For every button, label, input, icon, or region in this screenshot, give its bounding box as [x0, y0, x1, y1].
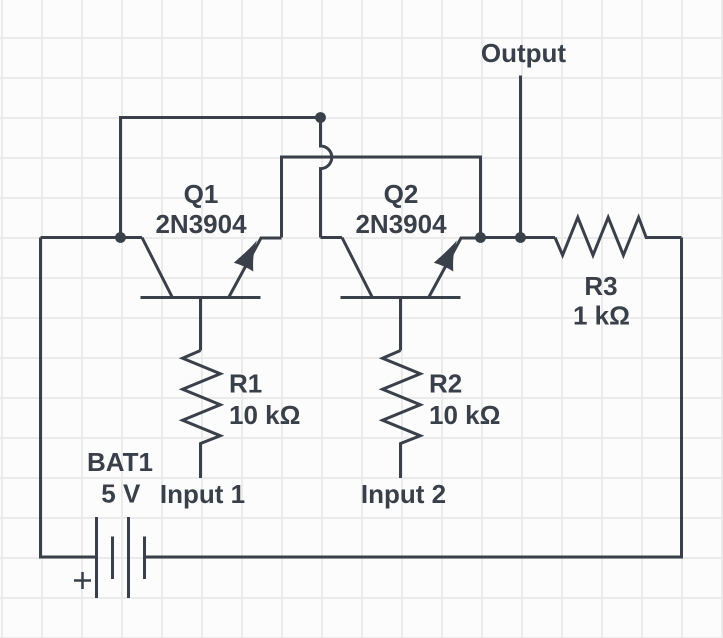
node top corner junction [315, 112, 326, 123]
transistor Q2 collector diagonal [342, 238, 372, 298]
transistor Q1 base bar [141, 296, 261, 299]
svg-text:2N3904: 2N3904 [355, 209, 447, 239]
svg-text:1 kΩ: 1 kΩ [573, 301, 630, 331]
svg-text:Input 2: Input 2 [361, 479, 446, 509]
transistor Q2 base lead [399, 298, 402, 351]
node output junction [515, 232, 526, 243]
transistor Q1 emitter arrow [234, 240, 257, 271]
transistor Q2 emitter diagonal and stub [429, 238, 481, 298]
node Output riser [519, 76, 522, 238]
wire left supply rail from Q1 collector node down to battery plus [41, 238, 97, 558]
svg-text:BAT1: BAT1 [87, 447, 153, 477]
resistor R1 zigzag [183, 351, 221, 479]
junction dots [115, 112, 526, 271]
svg-text:R2: R2 [429, 369, 462, 399]
wire Q2 collector stub [321, 236, 343, 239]
transistor Q2 base bar [341, 296, 461, 299]
resistor R2 zigzag [383, 351, 421, 479]
transistor Q1 base lead [199, 298, 202, 351]
svg-text:2N3904: 2N3904 [155, 209, 247, 239]
transistor Q2 emitter arrow [434, 240, 457, 271]
svg-text:Q2: Q2 [384, 179, 419, 209]
svg-text:Output: Output [481, 38, 567, 68]
battery plus sign [74, 572, 91, 589]
svg-text:R3: R3 [584, 271, 617, 301]
transistor Q1 collector diagonal [142, 238, 172, 298]
wire Q1 collector horizontal [41, 236, 143, 239]
svg-text:10 kΩ: 10 kΩ [229, 400, 300, 430]
battery BAT1 plates [97, 517, 129, 598]
node Q1 collector junction [115, 232, 126, 243]
transistor Q1 emitter diagonal and stub [229, 238, 282, 298]
svg-text:R1: R1 [229, 369, 262, 399]
svg-text:10 kΩ: 10 kΩ [429, 400, 500, 430]
svg-text:5 V: 5 V [101, 479, 141, 509]
wire top feedback from Q1 collector node to Q2 collector riser [121, 118, 321, 238]
wire emitter bus Q1 to Q2 [282, 157, 481, 238]
wire right rail down from R3 [145, 238, 682, 558]
wire emitter node to output node to R3 [481, 236, 556, 239]
resistor R3 zigzag [555, 217, 682, 255]
wire Q2 collector riser with hop over emitter bus [321, 118, 332, 238]
node Q2 emitter junction [475, 232, 486, 243]
svg-text:Q1: Q1 [184, 179, 219, 209]
svg-text:Input 1: Input 1 [160, 479, 245, 509]
